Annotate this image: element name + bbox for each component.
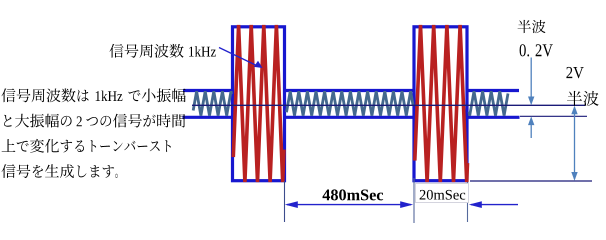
label: 0.2V	[520, 44, 553, 56]
burst bottom reference line	[470, 180, 592, 182]
small-amplitude envelope top line (right section)	[467, 89, 519, 92]
extension line below burst1 right edge	[284, 181, 286, 222]
small-amplitude envelope bottom line (right section)	[467, 116, 520, 119]
20mSec label	[420, 190, 466, 200]
20mSec right dimension arrow	[469, 201, 518, 208]
paragraph line 2	[4, 114, 185, 128]
burst 1 envelope rectangle	[233, 27, 285, 181]
480mSec label	[323, 189, 384, 200]
extension line below burst2 left edge	[413, 178, 415, 223]
small-amplitude envelope bottom line (middle section)	[285, 116, 415, 119]
small-wave bottom reference line	[520, 115, 587, 117]
small 1kHz wave (middle section)	[287, 91, 414, 115]
paragraph line 4	[2, 164, 118, 178]
480mSec dimension double arrow	[285, 201, 413, 208]
label: 2V	[566, 67, 583, 79]
0.2V dimension arrow upper part	[528, 58, 534, 106]
large 1kHz burst wave 2	[415, 25, 468, 182]
axis centerline	[192, 104, 585, 106]
callout arrow to burst 1	[219, 48, 263, 69]
20mSec label text box	[416, 184, 469, 203]
label: signal frequency 1kHz	[110, 44, 216, 58]
label: half wave (small)	[518, 20, 546, 33]
label: half wave (large)	[567, 91, 599, 106]
small-amplitude envelope bottom line (left section)	[183, 116, 233, 119]
small 1kHz wave (left section)	[193, 91, 231, 115]
extension line below burst2 right edge	[467, 182, 469, 222]
large 1kHz burst wave 1	[233, 25, 284, 182]
small-amplitude envelope top line (middle section)	[285, 89, 415, 92]
small-amplitude envelope top line (left section)	[183, 89, 233, 92]
paragraph line 3	[2, 139, 171, 153]
burst 2 envelope rectangle	[414, 27, 467, 181]
paragraph line 1	[2, 88, 186, 102]
2V dimension double arrow	[571, 106, 577, 181]
small 1kHz wave (right section)	[469, 91, 508, 115]
0.2V dimension arrow lower part	[528, 116, 534, 138]
